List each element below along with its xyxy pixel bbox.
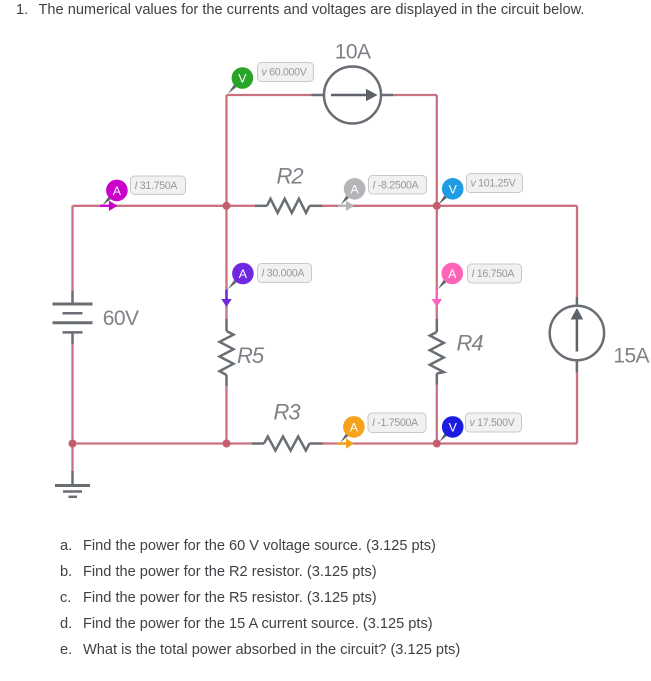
wire: R5 branch upper — [225, 206, 227, 319]
svg-text:I -8.2500A: I -8.2500A — [373, 179, 420, 191]
wire: middle horizontal R2 to right junction — [322, 205, 437, 207]
current direction arrow — [436, 290, 439, 301]
voltmeter badge v 17.500V (dark blue) — [440, 413, 522, 442]
voltmeter badge v 101.25V (light blue) — [439, 174, 523, 205]
wire: R4 branch lower — [436, 385, 438, 444]
badge pointer — [228, 85, 237, 94]
badge circle — [442, 416, 464, 438]
svg-text:v 60.000V: v 60.000V — [262, 66, 308, 78]
value label — [258, 264, 312, 283]
current source I2 15A — [550, 297, 604, 373]
badge circle — [106, 180, 128, 202]
wire: R5 branch lower — [225, 386, 227, 444]
question d — [60, 616, 72, 632]
badge pointer — [438, 280, 446, 289]
ammeter badge I -8.2500A (gray) — [338, 176, 427, 212]
value label — [468, 264, 522, 283]
svg-text:V: V — [238, 72, 247, 86]
badge pointer — [341, 196, 349, 205]
ammeter badge I 16.750A (pink) — [432, 263, 522, 307]
resistor R3 — [252, 437, 323, 451]
badge pointer — [439, 196, 447, 205]
junction: middle-right node — [433, 202, 441, 210]
ammeter badge I 31.750A (magenta) — [100, 176, 186, 211]
value label — [369, 176, 427, 195]
badge circle — [232, 67, 254, 89]
voltmeter badge V 60.000V (green) — [228, 63, 314, 94]
svg-text:R3: R3 — [274, 400, 302, 425]
svg-text:A: A — [350, 420, 359, 434]
wire: middle horizontal right junction to right rail — [437, 205, 577, 207]
svg-text:60V: 60V — [103, 307, 139, 330]
wire: left rail lower segment — [71, 343, 73, 444]
svg-text:A: A — [239, 267, 248, 281]
wire: bottom horizontal junction to right rail — [437, 442, 577, 444]
question b — [60, 564, 72, 580]
badge circle — [442, 263, 464, 285]
wire: left rail upper segment — [71, 206, 73, 291]
resistor R5 — [220, 319, 234, 386]
badge pointer — [103, 197, 111, 205]
wire: bottom horizontal left — [73, 442, 253, 444]
badge pointer — [228, 280, 237, 289]
current direction arrow — [100, 205, 110, 208]
badge pointer — [341, 434, 349, 443]
svg-text:v 101.25V: v 101.25V — [471, 177, 517, 189]
current source I1 10A — [312, 67, 394, 124]
title line — [16, 2, 28, 18]
wire: top-right vertical down to middle node — [436, 95, 438, 206]
current direction arrow — [338, 205, 347, 208]
resistor R2 — [255, 199, 322, 213]
badge pointer — [440, 433, 448, 441]
junction: bottom R4 node — [433, 440, 441, 448]
svg-text:R4: R4 — [457, 330, 484, 355]
resistor R4 — [430, 319, 444, 385]
wire: top-left vertical (node A to middle node) — [225, 95, 227, 206]
wire: bottom horizontal R3 to junction — [323, 442, 437, 444]
svg-text:R5: R5 — [237, 343, 265, 368]
arrowhead of 15A source — [571, 308, 584, 320]
svg-text:v 17.500V: v 17.500V — [470, 417, 516, 429]
svg-text:I 16.750A: I 16.750A — [472, 268, 516, 280]
wire: top horizontal right of 10A source — [392, 94, 437, 96]
svg-text:I 31.750A: I 31.750A — [135, 180, 179, 192]
current direction arrow — [338, 442, 348, 445]
svg-text:V: V — [449, 420, 458, 434]
svg-text:A: A — [448, 267, 457, 281]
value label — [258, 63, 314, 82]
junction: middle-left node — [223, 202, 231, 210]
svg-text:15A: 15A — [613, 345, 649, 368]
ground — [55, 471, 90, 497]
junction: bottom-left node — [69, 440, 77, 448]
badge circle — [442, 178, 464, 200]
svg-text:V: V — [449, 182, 458, 196]
question c — [60, 590, 71, 606]
badge circle — [343, 416, 365, 438]
wire: right rail lower segment — [576, 372, 578, 444]
wire: middle horizontal from left rail to junction — [73, 205, 227, 207]
svg-text:10A: 10A — [335, 41, 371, 64]
ammeter badge I -1.7500A (orange) — [338, 413, 427, 449]
svg-text:I -1.7500A: I -1.7500A — [372, 417, 419, 429]
arrowhead of 10A source — [366, 89, 378, 101]
wire: ground stub — [71, 444, 73, 473]
svg-text:A: A — [113, 184, 122, 198]
ammeter badge I 30.000A (purple) — [221, 263, 311, 307]
value label — [466, 413, 522, 432]
value label — [467, 174, 523, 193]
junction: bottom R5 node — [223, 440, 231, 448]
voltage source V1 60V battery — [53, 291, 93, 344]
current direction arrow — [225, 290, 228, 301]
question a — [60, 538, 72, 554]
svg-text:A: A — [350, 182, 359, 196]
wire: top horizontal left of 10A source — [227, 94, 314, 96]
svg-text:I 30.000A: I 30.000A — [262, 267, 306, 279]
wire: R4 branch upper — [436, 206, 438, 319]
badge circle — [232, 263, 254, 285]
wire: middle horizontal junction to R2 — [227, 205, 256, 207]
badge circle — [344, 178, 366, 200]
value label — [368, 413, 426, 433]
value label — [131, 176, 186, 195]
question e — [60, 642, 72, 658]
wire: right rail upper segment — [576, 206, 578, 297]
svg-text:R2: R2 — [277, 164, 304, 189]
